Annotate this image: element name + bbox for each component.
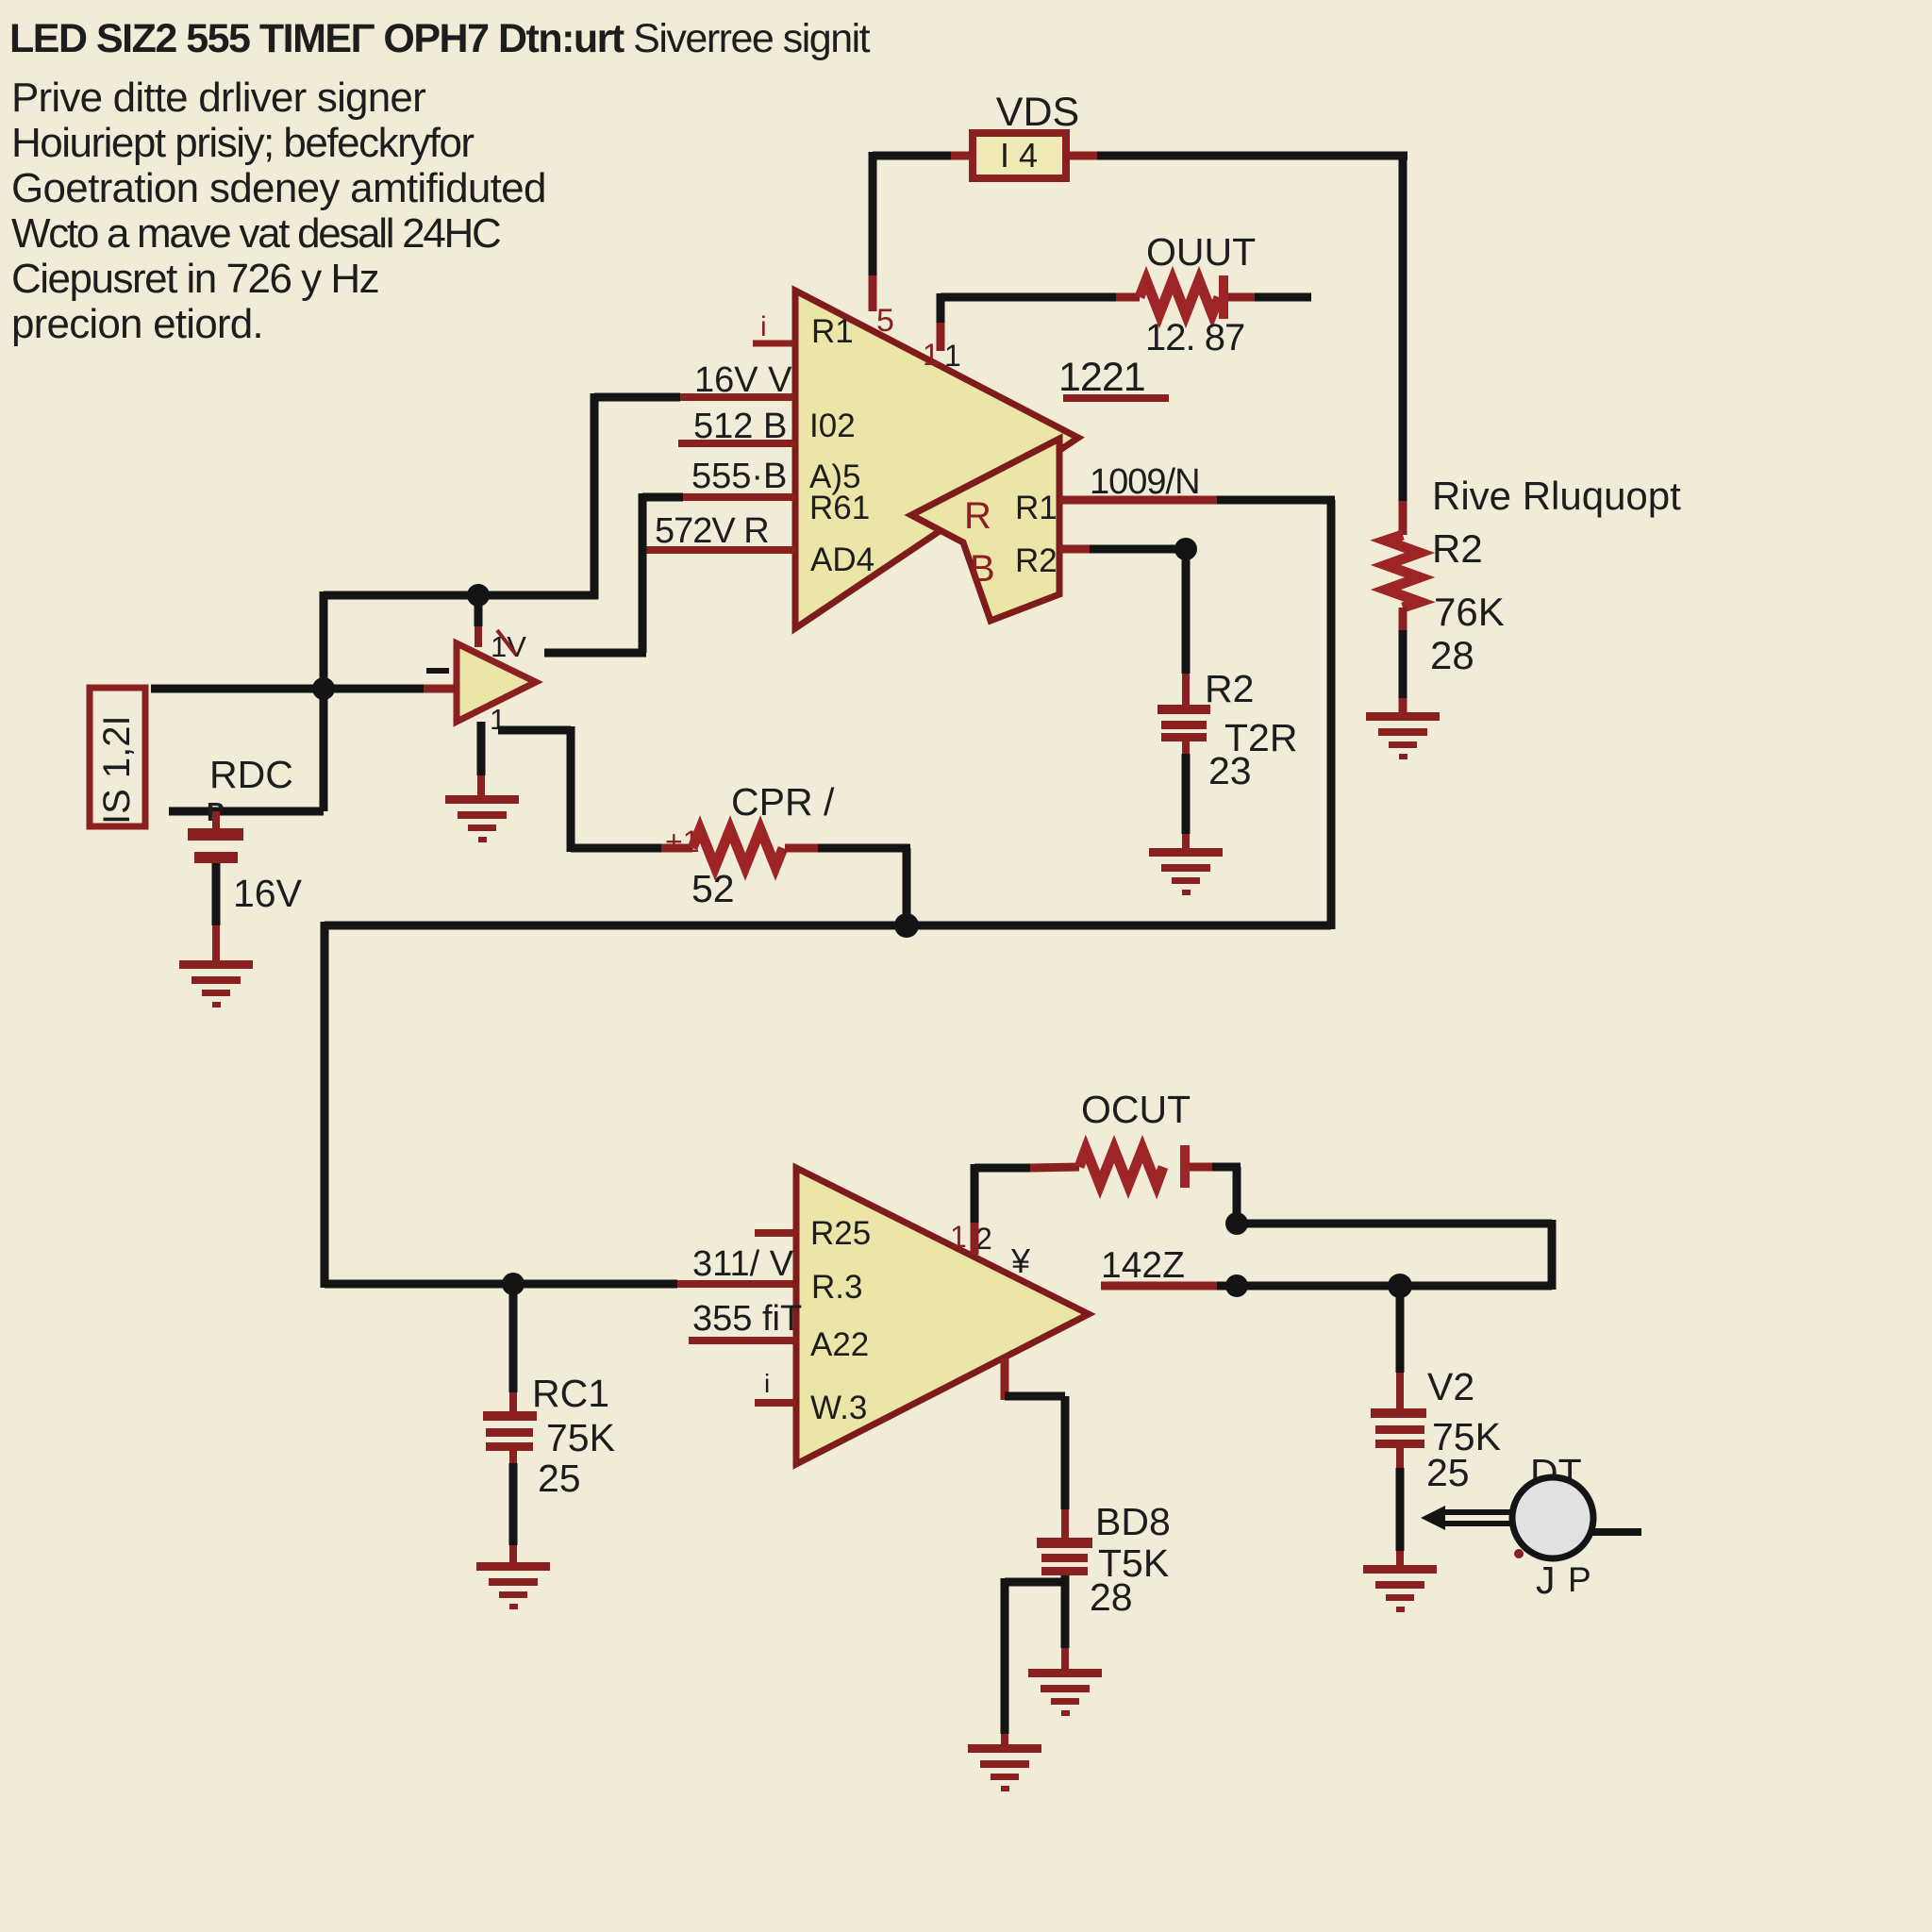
wire VDS left lead bbox=[873, 152, 973, 160]
svg-text:OUUT: OUUT bbox=[1146, 230, 1256, 274]
wire input node row bbox=[151, 668, 458, 689]
svg-text:precion etiord.: precion etiord. bbox=[11, 301, 263, 347]
svg-text:1221: 1221 bbox=[1058, 355, 1145, 400]
svg-text:V2: V2 bbox=[1427, 1365, 1474, 1408]
wire U3 output up bbox=[974, 1164, 1030, 1255]
wire BD8 bottom branch right ground bbox=[1061, 1575, 1070, 1671]
pin stub A22 bbox=[689, 1337, 796, 1344]
svg-text:R: R bbox=[964, 495, 991, 537]
svg-text:RDC: RDC bbox=[209, 753, 293, 796]
resistor R2 right bbox=[1386, 501, 1420, 714]
wire from VDS down to op-amp pin 5 bbox=[869, 152, 877, 311]
wire output R1 row bbox=[1059, 500, 1335, 929]
wire CPR down to bus bbox=[903, 848, 911, 925]
svg-text:Wcto a mave vat desall 24HC: Wcto a mave vat desall 24HC bbox=[11, 210, 501, 257]
wire feedback loop right bbox=[1237, 1220, 1552, 1290]
svg-text:R2: R2 bbox=[1015, 542, 1058, 579]
ground below R2 right bbox=[1366, 712, 1440, 759]
wire VDS right lead bbox=[1066, 152, 1407, 160]
svg-text:R61: R61 bbox=[809, 490, 870, 526]
capacitor RC1 bbox=[483, 1284, 537, 1564]
battery RDC bbox=[188, 797, 243, 962]
svg-text:Hoiuriept prisiy; befeckryfor: Hoiuriept prisiy; befeckryfor bbox=[11, 120, 474, 166]
svg-text:I 4: I 4 bbox=[1000, 136, 1038, 175]
svg-text:572V R: 572V R bbox=[655, 511, 769, 551]
description paragraph bbox=[11, 75, 546, 347]
svg-text:R2: R2 bbox=[1432, 526, 1483, 571]
ground below T2R bbox=[1149, 848, 1223, 895]
svg-text:LED SIZ2 555 TIMEΓ OPH7 Dtn:ur: LED SIZ2 555 TIMEΓ OPH7 Dtn:urt Siverree… bbox=[9, 16, 871, 61]
pin 1 2 labels bbox=[950, 1220, 992, 1256]
node junction R2 row bbox=[1174, 538, 1197, 560]
ground left of BD8 bbox=[968, 1744, 1041, 1791]
node label 1221 bbox=[1058, 355, 1169, 402]
svg-text:Rive Rluquopt: Rive Rluquopt bbox=[1432, 474, 1681, 518]
node junction below OCUT bbox=[1225, 1212, 1248, 1235]
svg-text:i: i bbox=[760, 311, 767, 342]
node junction lower input bbox=[502, 1273, 525, 1295]
pin stub W.3 bbox=[755, 1369, 796, 1403]
resistor CPR bbox=[661, 824, 910, 867]
svg-text:R1: R1 bbox=[1015, 490, 1058, 526]
ground below BD8 bbox=[1028, 1669, 1102, 1716]
node junction 142Z row left bbox=[1225, 1274, 1248, 1297]
svg-text:28: 28 bbox=[1430, 633, 1474, 677]
svg-text:i: i bbox=[764, 1369, 770, 1398]
node junction on bus bbox=[894, 913, 919, 938]
svg-text:R1: R1 bbox=[811, 313, 854, 350]
wire I02 corner bbox=[324, 393, 598, 599]
op-amp U3 (lower) bbox=[796, 1168, 1089, 1464]
wire horizontal bus bbox=[325, 922, 1331, 930]
pin stub 555B with wire bbox=[642, 493, 795, 502]
wire OCUT right corner down bbox=[1233, 1167, 1241, 1224]
svg-text:5: 5 bbox=[876, 303, 894, 339]
svg-text:B: B bbox=[970, 548, 995, 590]
svg-text:555·B: 555·B bbox=[691, 457, 787, 496]
svg-text:75K: 75K bbox=[546, 1416, 615, 1459]
wire output R2 row bbox=[1059, 545, 1186, 554]
svg-text:1: 1 bbox=[923, 338, 940, 372]
wire lower input row bbox=[325, 1280, 796, 1289]
wire OUUT left corner down to pin 1 bbox=[937, 293, 945, 351]
resistor OCUT bbox=[1030, 1145, 1241, 1188]
svg-text:J: J bbox=[1536, 1558, 1556, 1602]
svg-text:IS 1,2I: IS 1,2I bbox=[96, 715, 138, 824]
wire comparator output L to CPR bbox=[498, 726, 661, 852]
wire 555B vertical to comparator output bbox=[544, 493, 646, 653]
op-amp U1 (large) bbox=[795, 291, 1078, 628]
wire comparator to ground bbox=[477, 722, 486, 797]
svg-text:Prive ditte drliver signer: Prive ditte drliver signer bbox=[11, 75, 425, 121]
node junction at comparator top bbox=[467, 584, 490, 607]
svg-text:A22: A22 bbox=[810, 1326, 869, 1363]
svg-text:VDS: VDS bbox=[996, 90, 1079, 135]
ground below RC1 bbox=[476, 1562, 550, 1609]
svg-text:1: 1 bbox=[950, 1220, 967, 1254]
component box I4 (VDS) bbox=[973, 133, 1066, 178]
svg-text:OCUT: OCUT bbox=[1081, 1088, 1191, 1131]
svg-text:AD4: AD4 bbox=[810, 541, 874, 578]
ground below battery bbox=[179, 960, 253, 1008]
svg-text:23: 23 bbox=[1208, 749, 1252, 792]
source box IS 1.2 bbox=[90, 688, 145, 826]
pin stub 512B bbox=[678, 440, 795, 447]
dot marker near DT bbox=[1514, 1549, 1524, 1558]
svg-text:Goetration sdeney amtifiduted: Goetration sdeney amtifiduted bbox=[11, 165, 546, 211]
wire U3 lower output to BD8 bbox=[1005, 1358, 1065, 1539]
svg-text:I02: I02 bbox=[809, 408, 856, 444]
svg-text:355 fiT: 355 fiT bbox=[692, 1299, 802, 1339]
svg-text:311/ V: 311/ V bbox=[692, 1244, 794, 1284]
pin stub I02 with wire bbox=[594, 393, 795, 402]
op-amp U2 (comparator) bbox=[457, 630, 536, 736]
svg-text:RC1: RC1 bbox=[532, 1372, 609, 1415]
svg-text:16V: 16V bbox=[233, 872, 303, 915]
wire bus left down to lower stage bbox=[321, 922, 329, 1288]
svg-text:R2: R2 bbox=[1205, 667, 1254, 710]
node junction input row bbox=[312, 677, 335, 700]
label J P bbox=[1536, 1558, 1591, 1602]
svg-text:28: 28 bbox=[1090, 1575, 1133, 1619]
svg-text:CPR /: CPR / bbox=[731, 780, 835, 824]
transistor DT circle bbox=[1512, 1477, 1593, 1558]
svg-text:R25: R25 bbox=[810, 1215, 871, 1252]
svg-text:BD8: BD8 bbox=[1095, 1500, 1171, 1543]
svg-text:76K: 76K bbox=[1434, 590, 1505, 634]
wire BD8 left branch bbox=[1005, 1578, 1065, 1746]
ground below V2 bbox=[1363, 1565, 1437, 1612]
svg-text:W.3: W.3 bbox=[810, 1390, 867, 1426]
wire 142Z row bbox=[1101, 1282, 1552, 1291]
capacitor V2 bbox=[1371, 1286, 1426, 1567]
pin stub top (pin i) bbox=[753, 311, 795, 343]
svg-text:12. 87: 12. 87 bbox=[1145, 317, 1244, 358]
svg-text:P: P bbox=[1568, 1560, 1591, 1599]
capacitor T2R bbox=[1158, 549, 1210, 850]
svg-text:Ciepusret in 726 y Hz: Ciepusret in 726 y Hz bbox=[11, 256, 378, 302]
capacitor BD8 bbox=[1037, 1538, 1092, 1575]
wire right vertical down to resistor R2 bbox=[1399, 152, 1407, 501]
svg-text:1: 1 bbox=[944, 339, 961, 373]
svg-text:R.3: R.3 bbox=[811, 1269, 862, 1306]
pin 1|1 labels bbox=[923, 338, 961, 373]
wire battery top row bbox=[169, 808, 324, 816]
arrow into DT bbox=[1421, 1506, 1510, 1530]
pin stub R25 bbox=[755, 1229, 796, 1237]
svg-text:142Z: 142Z bbox=[1101, 1245, 1185, 1286]
wire junction drop to comparator bbox=[475, 595, 483, 647]
svg-text:25: 25 bbox=[1426, 1451, 1470, 1494]
svg-text:25: 25 bbox=[538, 1457, 581, 1500]
ground below comparator bbox=[445, 795, 519, 842]
pin stub AD4 bbox=[642, 546, 795, 554]
wire DT right lead bbox=[1591, 1528, 1641, 1536]
svg-text:52: 52 bbox=[691, 867, 735, 910]
svg-text:¥: ¥ bbox=[1010, 1241, 1031, 1280]
resistor OUUT bbox=[941, 275, 1311, 319]
wire vertical branch x343 bbox=[320, 591, 328, 811]
node junction 142Z row right bbox=[1388, 1274, 1412, 1298]
